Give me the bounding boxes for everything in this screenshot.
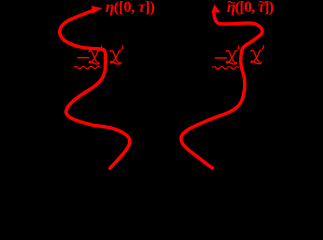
under-tilde of right approx-X' — [212, 67, 239, 69]
script X' (left of eta curve) — [89, 46, 102, 64]
svg-text:η([0, τ]): η([0, τ]) — [105, 0, 155, 16]
under-tilde of left approx-X' — [74, 66, 101, 68]
arrowhead of eta — [91, 6, 102, 14]
curve tilde-eta (right curve) — [181, 12, 262, 168]
tilde over eta — [228, 2, 235, 4]
curve eta (left curve) — [60, 11, 130, 169]
minus sign of left approx-X' — [77, 57, 89, 59]
arrowhead of tilde-eta — [212, 4, 221, 13]
tilde over tau — [259, 2, 266, 4]
script X' (right of tilde-eta curve) — [251, 46, 264, 64]
script X' (left of tilde-eta curve) — [226, 46, 239, 64]
minus sign of right approx-X' — [215, 57, 227, 59]
script X' (right of eta curve) — [110, 46, 123, 64]
